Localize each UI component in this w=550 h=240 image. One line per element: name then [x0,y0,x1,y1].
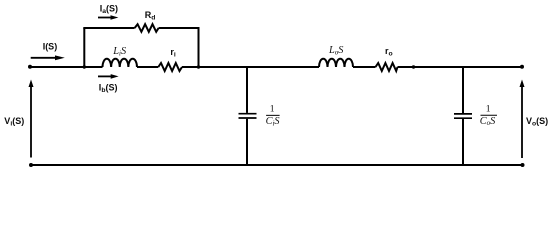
arrow: output voltage Vo(S) [520,80,525,159]
inductor Li [103,59,137,67]
svg-text:1: 1 [486,104,491,115]
wire: Rd branch top-left segment [83,27,134,29]
svg-text:Vo(S): Vo(S) [526,116,548,128]
resistor Rd [135,24,159,32]
wire: capacitor Ci lower lead [246,119,248,165]
node: output bottom terminal dot [521,163,525,167]
node: output top terminal dot [520,65,524,69]
node: input bottom terminal dot [29,163,33,167]
wire: Rd branch top-right segment [159,27,200,29]
label 1/CoS: fraction bar [481,114,498,116]
wire: top rail from input terminal to inductor Li [30,66,103,68]
wire: capacitor Ci upper lead [246,66,248,113]
inductor Lo [319,59,353,67]
label 1/CiS: fraction bar [266,114,280,116]
svg-text:1: 1 [270,104,275,115]
arrow: branch current Ia(S) [98,15,118,20]
wire: capacitor Co lower lead [462,119,464,165]
wire: main rail from resistor ri to inductor Lo (through node at x=247) [182,66,319,68]
resistor ro [376,63,398,71]
svg-text:Vi(S): Vi(S) [4,116,24,128]
arrow: input current I(S) [31,55,65,60]
wire: right vertical of Rd bypass branch [198,28,200,67]
resistor ri [158,63,182,71]
wire: between inductor Lo and resistor ro [353,66,376,68]
node: dot after resistor ro [412,65,415,68]
wire: bottom rail [31,164,523,166]
wire: capacitor Co upper lead [462,66,464,113]
node: junction dot at right branch merge [197,65,200,68]
node: junction dot at left branch split [83,65,86,68]
capacitor Co plates [454,114,472,118]
capacitor Ci plates [239,114,257,118]
arrow: branch current Ib(S) [98,74,119,79]
wire: main rail from resistor ro to output terminal [398,66,523,68]
wire: left vertical of Rd bypass branch [83,28,85,67]
svg-text:I(S): I(S) [43,42,58,52]
arrow: input voltage Vi(S) [29,80,34,158]
node: input top terminal dot [28,65,32,69]
wire: between inductor Li and resistor ri [137,66,158,68]
